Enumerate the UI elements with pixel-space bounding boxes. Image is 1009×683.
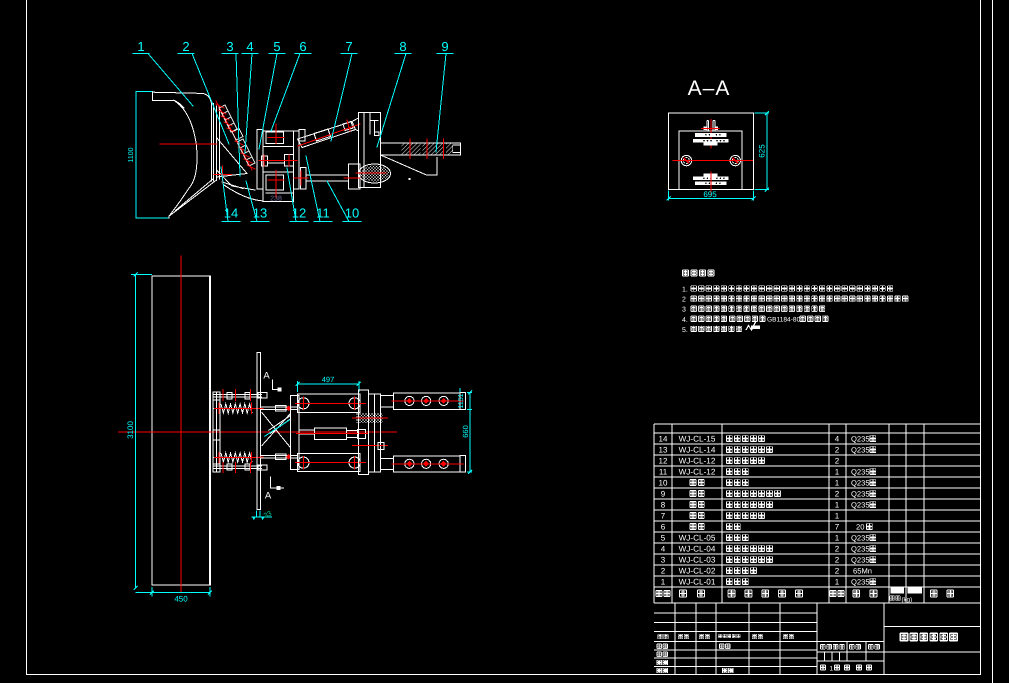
svg-text:WJ-CL-02: WJ-CL-02 — [679, 567, 716, 576]
svg-text:14: 14 — [659, 435, 668, 444]
svg-text:2: 2 — [835, 556, 840, 565]
bracket lower arm plan — [380, 456, 465, 472]
svg-text:2: 2 — [835, 446, 840, 455]
svg-text:1100: 1100 — [128, 147, 135, 162]
bracket BOM table grid — [654, 424, 981, 603]
svg-text:1: 1 — [835, 479, 840, 488]
svg-text:1: 1 — [835, 512, 840, 521]
wire A-A top bolt — [707, 120, 715, 131]
svg-text:12: 12 — [659, 457, 668, 466]
node drawbar red ticks — [410, 139, 444, 159]
node BOM header — [656, 590, 662, 597]
svg-text:2: 2 — [835, 490, 840, 499]
svg-text:WJ-CL-14: WJ-CL-14 — [679, 446, 716, 455]
svg-text:Q235: Q235 — [851, 468, 870, 477]
svg-text:695: 695 — [703, 190, 717, 199]
drawbar hatched bar — [381, 143, 461, 155]
svg-text:6: 6 — [299, 39, 306, 54]
wire triangle bracket — [217, 138, 263, 201]
svg-text:5: 5 — [661, 534, 666, 543]
node cyl10 centerline — [344, 177, 360, 179]
svg-text::: : — [713, 270, 715, 279]
node title block labels — [658, 634, 662, 639]
svg-text:2: 2 — [682, 297, 686, 304]
node section A marks — [271, 380, 284, 488]
svg-text:WJ-CL-15: WJ-CL-15 — [679, 435, 716, 444]
wire upper link (item 3) — [298, 118, 359, 148]
node block red centerlines — [259, 124, 297, 198]
svg-text:20: 20 — [856, 523, 864, 532]
svg-text:11: 11 — [659, 468, 668, 477]
node upper link centerline — [298, 124, 360, 146]
node plan upper spring red ticks — [214, 389, 263, 414]
svg-text:4: 4 — [661, 545, 666, 554]
svg-text:1: 1 — [137, 39, 144, 54]
bracket plan blade — [152, 276, 210, 585]
svg-text:10: 10 — [345, 206, 359, 221]
svg-text:1: 1 — [830, 666, 834, 673]
svg-text:Q235: Q235 — [851, 490, 870, 499]
node top plate bolts — [298, 398, 360, 469]
node plan lower spring red ticks — [214, 452, 263, 473]
svg-text:9: 9 — [441, 39, 448, 54]
node pivot 14 red cross — [214, 166, 231, 183]
svg-text:450: 450 — [174, 595, 188, 604]
node tech requirements text — [682, 270, 908, 334]
svg-text:2: 2 — [835, 457, 840, 466]
wire spring diagonal assembly — [216, 101, 255, 170]
wire lower arm outline — [381, 155, 437, 175]
svg-text:4: 4 — [835, 435, 840, 444]
wire blade outline — [153, 92, 212, 181]
svg-text:WJ-CL-12: WJ-CL-12 — [679, 457, 716, 466]
svg-text:A: A — [263, 371, 270, 382]
svg-text:GB1184-80: GB1184-80 — [767, 317, 801, 324]
svg-text:5.: 5. — [682, 327, 688, 334]
svg-text:4: 4 — [246, 39, 253, 54]
bracket plan mounting channel — [213, 392, 220, 472]
svg-text:13: 13 — [253, 206, 267, 221]
svg-text:1: 1 — [835, 468, 840, 477]
cylinder item10 — [300, 164, 390, 189]
svg-text:Q235: Q235 — [851, 435, 870, 444]
svg-text:1: 1 — [661, 578, 666, 587]
node dim 497 — [296, 381, 361, 392]
svg-text:238: 238 — [270, 196, 282, 203]
bracket A-A upper connector — [693, 133, 728, 146]
node dim 625 — [755, 111, 770, 192]
svg-text:Q235: Q235 — [851, 556, 870, 565]
wire cyan diag in brace — [265, 420, 291, 437]
svg-text:WJ-CL-03: WJ-CL-03 — [679, 556, 716, 565]
bracket rear plates — [359, 390, 381, 475]
svg-text:Q235: Q235 — [851, 479, 870, 488]
svg-text:2: 2 — [835, 567, 840, 576]
svg-text:1: 1 — [835, 578, 840, 587]
node dim 450 — [136, 587, 213, 597]
svg-text:6: 6 — [661, 523, 666, 532]
svg-text:Q235: Q235 — [851, 501, 870, 510]
svg-text:Q235: Q235 — [851, 446, 870, 455]
node link rod red marks — [260, 408, 264, 457]
bracket A-A outer housing — [669, 113, 754, 190]
bracket pivot plate — [257, 353, 261, 510]
svg-text:WJ-CL-01: WJ-CL-01 — [679, 578, 716, 587]
svg-text:Q235: Q235 — [851, 534, 870, 543]
svg-text:2: 2 — [835, 545, 840, 554]
svg-text:2: 2 — [182, 39, 189, 54]
svg-text:12: 12 — [292, 206, 306, 221]
svg-text:Q235: Q235 — [851, 545, 870, 554]
bracket plan main frame — [291, 394, 361, 471]
svg-text:8: 8 — [399, 39, 406, 54]
svg-text:2: 2 — [661, 567, 666, 576]
node dim 695 — [667, 191, 756, 201]
svg-text:11: 11 — [316, 206, 330, 221]
bracket A-A lower connector — [693, 174, 728, 186]
svg-text:7: 7 — [835, 523, 840, 532]
svg-text:7: 7 — [345, 39, 352, 54]
svg-text:WJ-CL-05: WJ-CL-05 — [679, 534, 716, 543]
node drawing title — [900, 633, 908, 642]
node blade centerline — [160, 143, 217, 145]
bracket title block — [654, 603, 981, 675]
svg-text:WJ-CL-12: WJ-CL-12 — [679, 468, 716, 477]
svg-text:3: 3 — [682, 307, 686, 314]
svg-text:10: 10 — [659, 479, 668, 488]
svg-text:3: 3 — [226, 39, 233, 54]
svg-text:3100: 3100 — [126, 421, 135, 439]
svg-text:9: 9 — [661, 490, 666, 499]
svg-text:1: 1 — [835, 534, 840, 543]
svg-text:(kg): (kg) — [902, 597, 913, 604]
svg-text:A: A — [265, 490, 272, 501]
svg-text:WJ-CL-04: WJ-CL-04 — [679, 545, 716, 554]
svg-text:A–A: A–A — [688, 77, 731, 100]
svg-text:13: 13 — [659, 446, 668, 455]
svg-text:4.: 4. — [682, 317, 688, 324]
svg-text:7: 7 — [661, 512, 666, 521]
svg-text:660: 660 — [461, 425, 470, 438]
svg-text:14: 14 — [224, 206, 238, 221]
svg-text:5: 5 — [273, 39, 280, 54]
wire rear hatched bolts — [356, 413, 383, 423]
svg-text:8: 8 — [661, 501, 666, 510]
svg-text:625: 625 — [758, 144, 767, 158]
node A-A pin circles — [681, 155, 740, 165]
node dim 3100 — [131, 272, 152, 590]
wire: side view group — [136, 92, 219, 218]
wire link rods — [261, 406, 297, 460]
node A-A top bolt red lines — [701, 119, 720, 149]
bracket mount plates — [358, 113, 380, 188]
transfer case block — [257, 130, 305, 202]
node arm hole markers — [405, 396, 448, 405]
wire X brace — [262, 412, 291, 447]
svg-text:1.: 1. — [682, 287, 688, 294]
node datum symbol — [251, 511, 272, 518]
cylinder steering plan — [299, 428, 366, 439]
node plan centerlines — [118, 255, 397, 592]
node A-A lower red centerline — [710, 172, 712, 196]
node callout numbers 1-14 — [133, 54, 453, 222]
svg-text:65Mn: 65Mn — [853, 567, 872, 576]
bracket upper arm plan — [380, 392, 465, 409]
wire blade mounting plate — [213, 104, 215, 182]
node blade-left-bracket — [136, 92, 169, 218]
wire plan upper spring unit — [213, 393, 267, 413]
wire plan lower spring unit — [213, 453, 267, 470]
svg-text:497: 497 — [322, 375, 335, 384]
svg-text:3: 3 — [661, 556, 666, 565]
svg-text:1151: 1151 — [458, 393, 465, 408]
svg-text:1: 1 — [835, 501, 840, 510]
svg-text:Q235: Q235 — [851, 578, 870, 587]
